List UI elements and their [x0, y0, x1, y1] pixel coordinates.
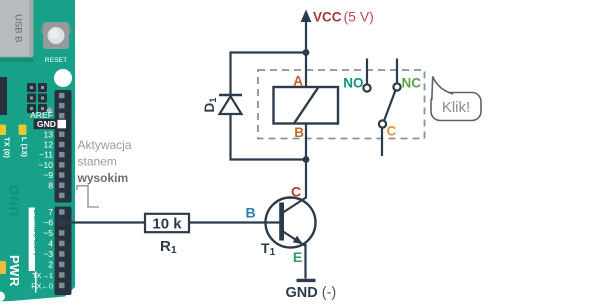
svg-text:A: A — [293, 74, 303, 89]
svg-text:2: 2 — [48, 260, 53, 270]
svg-text:NC: NC — [402, 76, 422, 91]
svg-text:DIGITAL (PWM~): DIGITAL (PWM~) — [32, 210, 38, 256]
svg-text:~9: ~9 — [43, 170, 53, 180]
svg-text:10 k: 10 k — [152, 216, 182, 233]
svg-text:RX←0: RX←0 — [31, 282, 53, 291]
svg-text:7: 7 — [48, 207, 53, 217]
svg-text:C: C — [291, 184, 301, 200]
svg-text:~6: ~6 — [43, 218, 53, 228]
svg-text:UNO: UNO — [7, 184, 22, 216]
svg-text:GND (-): GND (-) — [286, 285, 337, 301]
svg-text:USB B: USB B — [13, 14, 24, 43]
svg-text:~3: ~3 — [43, 249, 53, 259]
svg-text:B: B — [294, 125, 304, 140]
svg-text:Klik!: Klik! — [442, 99, 470, 116]
svg-text:C: C — [387, 124, 397, 139]
svg-text:TX (0): TX (0) — [3, 137, 12, 158]
svg-text:13: 13 — [43, 129, 53, 139]
svg-text:L (13): L (13) — [20, 137, 29, 157]
svg-text:B: B — [245, 205, 255, 221]
svg-text:(5 V): (5 V) — [344, 9, 374, 25]
svg-text:GND: GND — [37, 119, 56, 129]
svg-text:4: 4 — [48, 239, 53, 249]
svg-text:PWR: PWR — [7, 255, 22, 287]
svg-text:RESET: RESET — [45, 57, 68, 64]
svg-text:wysokim: wysokim — [77, 171, 129, 185]
svg-text:Aktywacja: Aktywacja — [78, 138, 132, 152]
svg-text:~10: ~10 — [38, 160, 53, 170]
svg-text:~5: ~5 — [43, 228, 53, 238]
svg-text:stanem: stanem — [78, 155, 117, 169]
svg-text:8: 8 — [48, 180, 53, 190]
svg-text:NO: NO — [343, 76, 363, 91]
svg-text:VCC: VCC — [313, 10, 342, 25]
svg-text:12: 12 — [43, 140, 53, 150]
svg-text:~11: ~11 — [39, 150, 53, 160]
svg-text:E: E — [293, 249, 302, 265]
